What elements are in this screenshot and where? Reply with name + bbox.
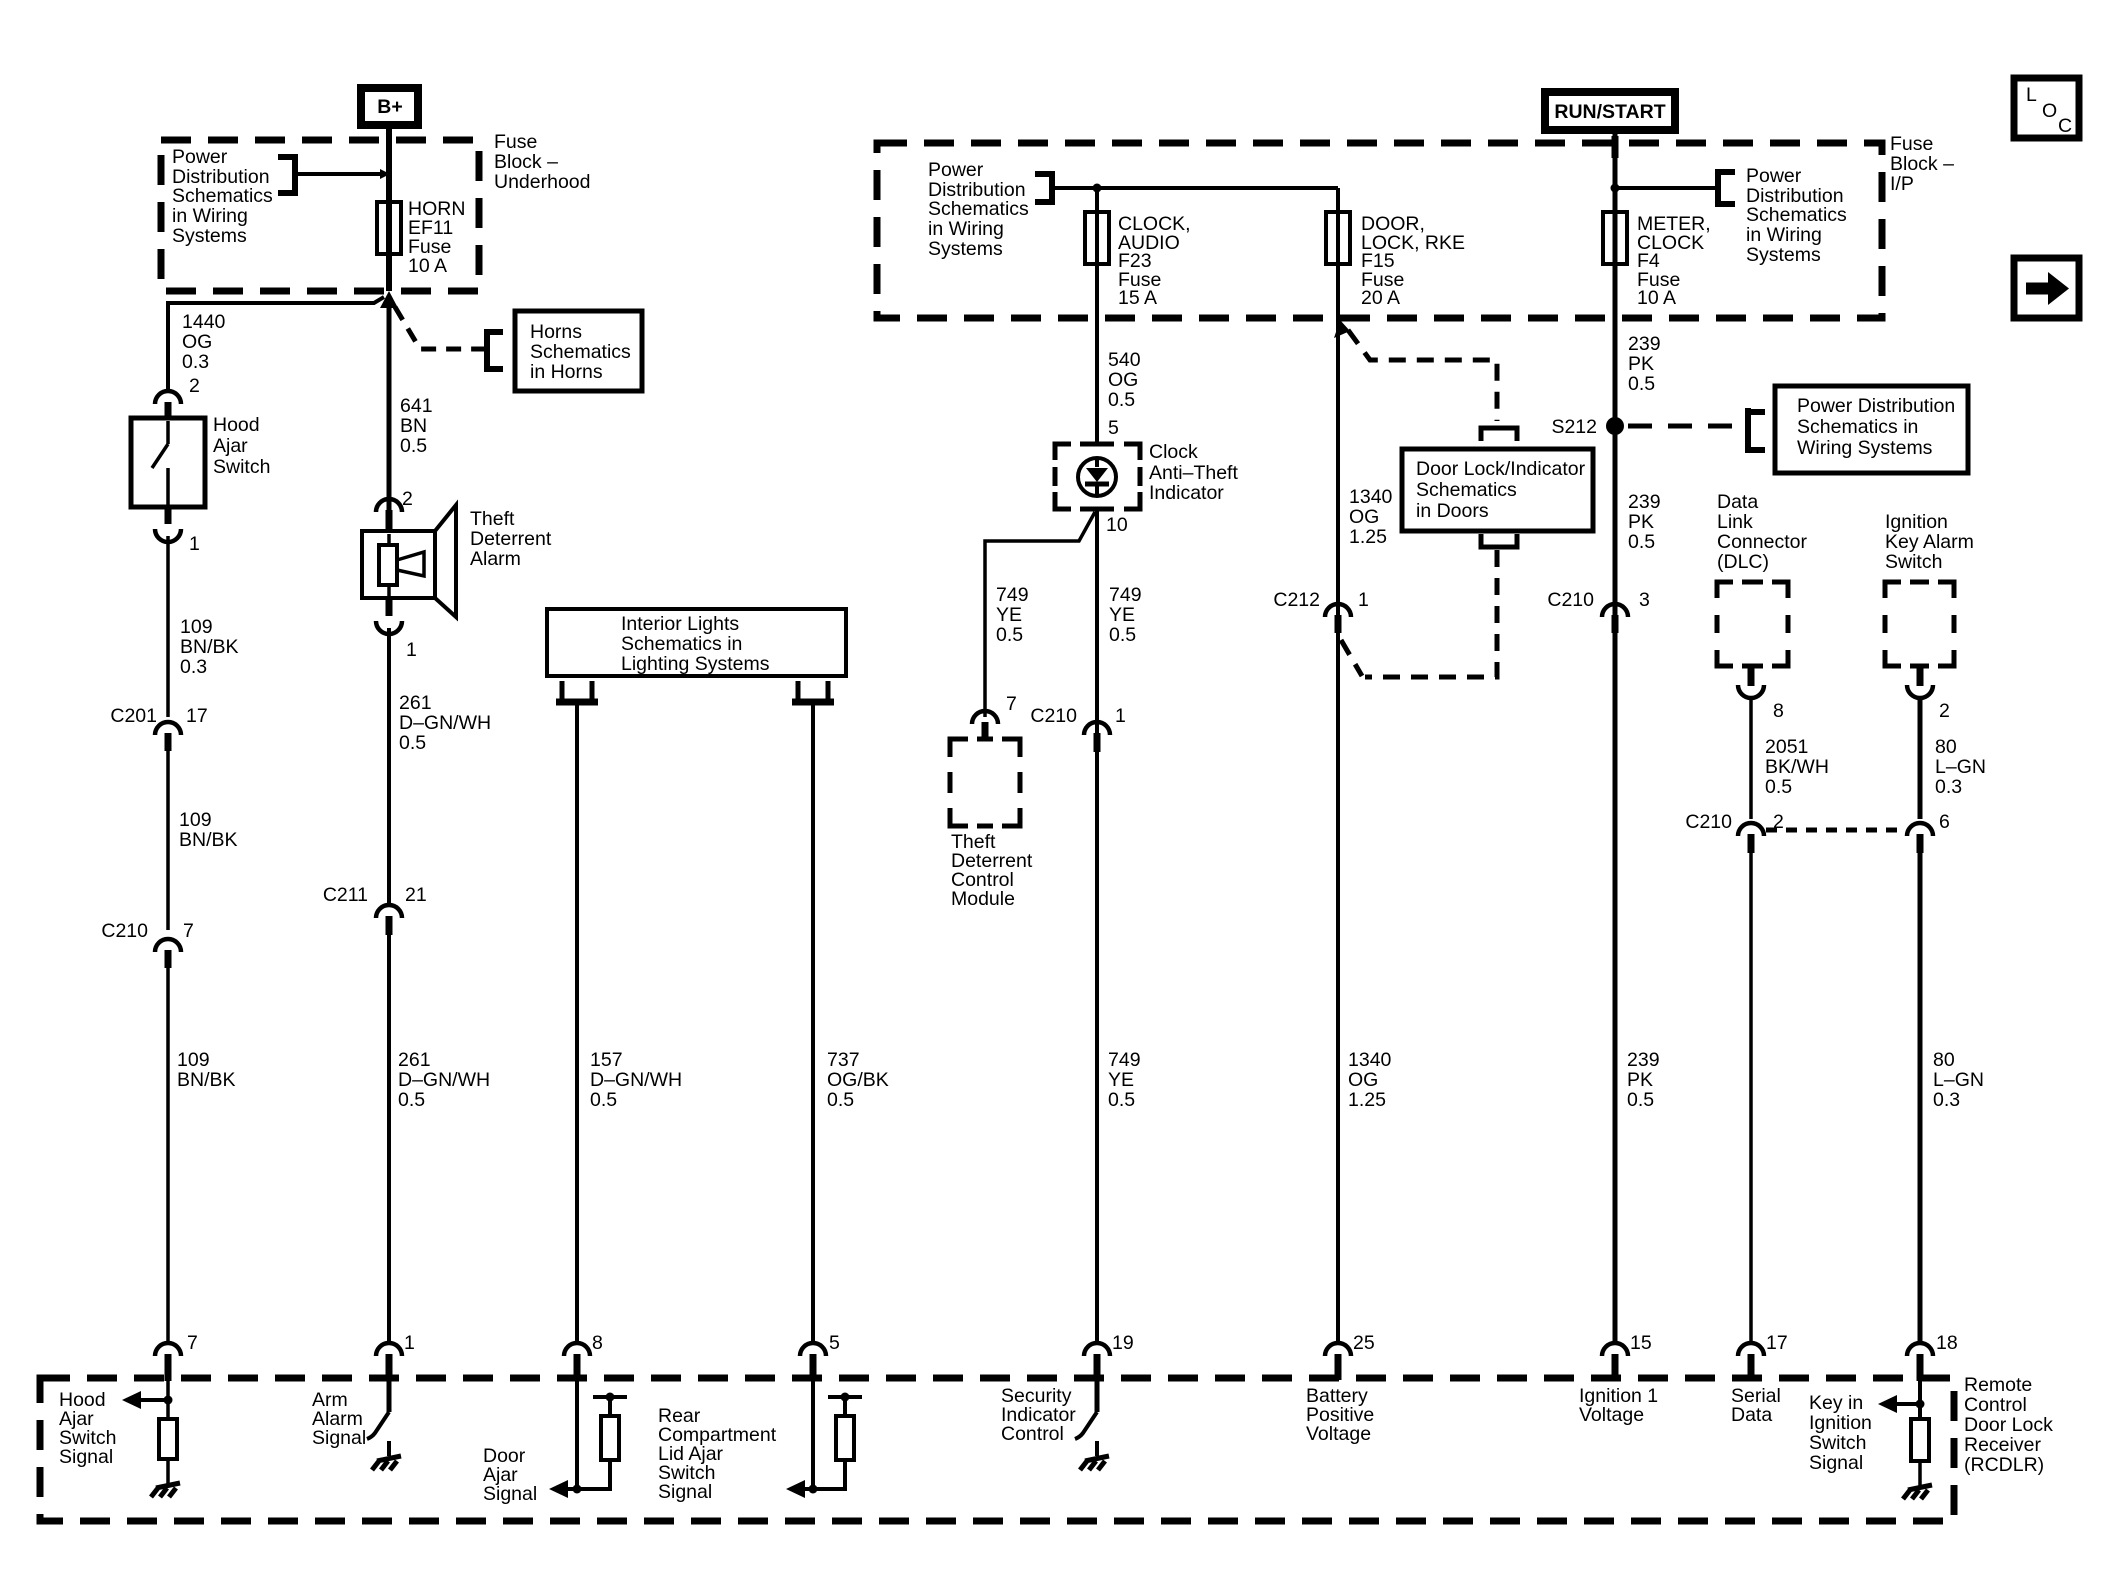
svg-text:Schematics in: Schematics in <box>621 633 742 655</box>
svg-text:YE: YE <box>1108 1069 1134 1091</box>
svg-text:OG: OG <box>1108 369 1138 391</box>
svg-text:0.5: 0.5 <box>996 624 1023 646</box>
ground security indicator <box>1080 1456 1109 1470</box>
svg-text:0.5: 0.5 <box>1109 624 1136 646</box>
svg-text:OG/BK: OG/BK <box>827 1069 889 1091</box>
svg-text:25: 25 <box>1353 1332 1375 1354</box>
svg-text:540: 540 <box>1108 349 1141 371</box>
svg-text:1: 1 <box>1115 705 1126 727</box>
wire C210 down to RCDLR pin 7 <box>166 968 170 1344</box>
svg-text:5: 5 <box>829 1332 840 1354</box>
svg-text:0.3: 0.3 <box>180 656 207 678</box>
svg-text:Data: Data <box>1717 491 1758 513</box>
svg-text:1340: 1340 <box>1348 1049 1392 1071</box>
connector pin 2 alarm <box>376 499 402 512</box>
svg-text:0.5: 0.5 <box>400 435 427 457</box>
svg-text:C212: C212 <box>1273 589 1320 611</box>
wire C210-2 down <box>1749 853 1753 1344</box>
wire clock/audio down <box>1095 188 1099 444</box>
arrow up at I/P block bottom <box>1334 320 1350 338</box>
key in ignition circuit <box>1918 1381 1922 1419</box>
arrow up at fuse block bottom <box>380 291 398 308</box>
wire branch to hood ajar switch <box>168 297 384 392</box>
branch to theft deterrent control module <box>985 512 1095 717</box>
svg-text:239: 239 <box>1628 491 1661 513</box>
svg-text:Voltage: Voltage <box>1579 1404 1644 1426</box>
svg-text:I/P: I/P <box>1890 173 1914 195</box>
dashed ref to horns schematics <box>395 307 486 349</box>
svg-text:(DLC): (DLC) <box>1717 551 1769 573</box>
svg-text:737: 737 <box>827 1049 860 1071</box>
svg-text:C201: C201 <box>110 705 157 727</box>
svg-text:261: 261 <box>399 692 432 714</box>
svg-text:1: 1 <box>1358 589 1369 611</box>
svg-text:C: C <box>2058 115 2072 137</box>
arrow hood ajar switch signal <box>138 1398 168 1402</box>
svg-text:BN: BN <box>400 415 427 437</box>
svg-text:Ignition: Ignition <box>1885 511 1948 533</box>
security indicator switch <box>1095 1381 1100 1412</box>
LOC box <box>2014 78 2079 138</box>
svg-text:OG: OG <box>182 331 212 353</box>
box Power Distribution Schematics in Wiring Systems <box>1775 386 1968 473</box>
fuse HORN EF11 <box>377 202 401 254</box>
svg-text:Power Distribution: Power Distribution <box>1797 395 1955 417</box>
svg-text:Fuse: Fuse <box>494 131 537 153</box>
svg-text:6: 6 <box>1939 811 1950 833</box>
svg-text:749: 749 <box>996 584 1029 606</box>
svg-text:0.3: 0.3 <box>182 351 209 373</box>
svg-text:8: 8 <box>1773 700 1784 722</box>
RCDLR dashed box <box>40 1378 1954 1521</box>
svg-text:0.5: 0.5 <box>1108 389 1135 411</box>
svg-text:749: 749 <box>1109 584 1142 606</box>
arrow box <box>2014 258 2079 318</box>
svg-text:L–GN: L–GN <box>1933 1069 1984 1091</box>
svg-text:Switch: Switch <box>213 456 270 478</box>
svg-text:Signal: Signal <box>312 1427 366 1449</box>
fuse METER CLOCK F4 <box>1603 212 1627 264</box>
svg-text:17: 17 <box>1766 1332 1788 1354</box>
door ajar signal circuit <box>575 1381 579 1489</box>
svg-text:BN/BK: BN/BK <box>180 636 239 658</box>
svg-text:19: 19 <box>1112 1332 1134 1354</box>
wire resistor to ground <box>166 1459 170 1484</box>
wire run/start to meter fuse and down <box>1613 130 1618 1344</box>
dashed ref S212 to power distribution <box>1628 424 1745 429</box>
hood ajar switch box <box>131 418 205 507</box>
connector bracket left under interior lights <box>562 681 592 699</box>
svg-text:0.5: 0.5 <box>1628 531 1655 553</box>
svg-text:0.5: 0.5 <box>1765 776 1792 798</box>
svg-text:0.5: 0.5 <box>399 732 426 754</box>
wire interior right down <box>811 705 815 1344</box>
svg-text:C210: C210 <box>101 920 148 942</box>
svg-text:BN/BK: BN/BK <box>177 1069 236 1091</box>
fuse DOOR LOCK RKE F15 <box>1326 212 1350 264</box>
bracket for power distribution ref (underhood) <box>278 154 295 196</box>
svg-text:1340: 1340 <box>1349 486 1393 508</box>
connector pin 1 alarm <box>386 598 393 616</box>
svg-text:OG: OG <box>1348 1069 1378 1091</box>
svg-text:RUN/START: RUN/START <box>1554 101 1665 123</box>
svg-text:in Doors: in Doors <box>1416 500 1489 522</box>
svg-text:239: 239 <box>1628 333 1661 355</box>
svg-text:Power: Power <box>1746 165 1802 187</box>
tick run/start wire at fuse block edge <box>1612 136 1619 158</box>
svg-text:Theft: Theft <box>470 508 515 530</box>
svg-text:Indicator: Indicator <box>1149 482 1224 504</box>
alarm small horn <box>397 552 424 576</box>
svg-text:B+: B+ <box>377 96 402 118</box>
svg-text:0.3: 0.3 <box>1933 1089 1960 1111</box>
resistor hood <box>159 1419 177 1459</box>
svg-text:Systems: Systems <box>172 225 247 247</box>
svg-text:(RCDLR): (RCDLR) <box>1964 1454 2044 1476</box>
connector bracket right under interior lights <box>798 681 828 699</box>
svg-text:3: 3 <box>1639 589 1650 611</box>
svg-text:2: 2 <box>402 488 413 510</box>
svg-text:2: 2 <box>1939 700 1950 722</box>
svg-text:10 A: 10 A <box>1637 287 1676 309</box>
bus wire from bracket to door fuse <box>1052 186 1338 190</box>
svg-text:20 A: 20 A <box>1361 287 1400 309</box>
alarm driver <box>379 545 397 585</box>
bracket power distribution I/P left <box>1035 171 1052 205</box>
wire B+ down through horn fuse <box>386 125 392 291</box>
svg-text:8: 8 <box>592 1332 603 1354</box>
svg-text:Schematics: Schematics <box>928 198 1029 220</box>
svg-text:0.5: 0.5 <box>590 1089 617 1111</box>
svg-text:in Wiring: in Wiring <box>1746 224 1822 246</box>
clock anti-theft indicator dashed box <box>1055 444 1140 509</box>
svg-text:Power: Power <box>172 146 228 168</box>
svg-text:Schematics: Schematics <box>530 341 631 363</box>
svg-text:BN/BK: BN/BK <box>179 829 238 851</box>
svg-text:21: 21 <box>405 884 427 906</box>
bracket below door lock box <box>1481 534 1517 547</box>
connector pin 2 ignition <box>1917 666 1924 686</box>
fuse block I/P (dashed box) <box>877 143 1882 318</box>
wire DLC down <box>1749 698 1753 819</box>
theft deterrent control module dashed box <box>950 739 1020 826</box>
svg-text:Signal: Signal <box>1809 1452 1863 1474</box>
wire C201 to C210 <box>166 751 170 930</box>
svg-text:Control: Control <box>1964 1394 2027 1416</box>
ground hood <box>151 1483 180 1497</box>
svg-text:BK/WH: BK/WH <box>1765 756 1829 778</box>
svg-text:1440: 1440 <box>182 311 226 333</box>
box Horns Schematics in Horns <box>515 311 642 391</box>
svg-text:Signal: Signal <box>658 1481 712 1503</box>
svg-text:10 A: 10 A <box>408 255 447 277</box>
LED indicator <box>1078 458 1116 496</box>
theft deterrent alarm body <box>362 531 435 598</box>
junction hood signal <box>164 1396 173 1405</box>
connector pin 2 hood <box>155 391 181 404</box>
svg-text:1: 1 <box>404 1332 415 1354</box>
svg-text:109: 109 <box>180 616 213 638</box>
wire alarm to C211 <box>387 628 391 903</box>
svg-text:0.3: 0.3 <box>1935 776 1962 798</box>
svg-text:in Wiring: in Wiring <box>928 218 1004 240</box>
svg-text:Door Lock/Indicator: Door Lock/Indicator <box>1416 458 1586 480</box>
svg-text:0.5: 0.5 <box>827 1089 854 1111</box>
svg-text:2051: 2051 <box>1765 736 1808 758</box>
svg-text:Key in: Key in <box>1809 1392 1863 1414</box>
hood ajar switch contacts <box>152 421 168 507</box>
wire C211 down <box>387 935 391 1344</box>
svg-text:Anti–Theft: Anti–Theft <box>1149 462 1238 484</box>
svg-text:Door Lock: Door Lock <box>1964 1414 2053 1436</box>
svg-text:Voltage: Voltage <box>1306 1423 1371 1445</box>
svg-text:D–GN/WH: D–GN/WH <box>590 1069 682 1091</box>
pull-up resistor door ajar <box>601 1416 619 1460</box>
svg-text:10: 10 <box>1106 514 1128 536</box>
svg-text:Lighting Systems: Lighting Systems <box>621 653 770 675</box>
svg-text:109: 109 <box>179 809 212 831</box>
svg-text:Data: Data <box>1731 1404 1772 1426</box>
svg-text:in Wiring: in Wiring <box>172 205 248 227</box>
svg-text:Deterrent: Deterrent <box>470 528 552 550</box>
fuse CLOCK AUDIO F23 <box>1085 212 1109 264</box>
theft deterrent alarm horn cone <box>435 505 456 617</box>
svg-text:Switch: Switch <box>1809 1432 1866 1454</box>
svg-text:0.5: 0.5 <box>1627 1089 1654 1111</box>
svg-text:80: 80 <box>1935 736 1957 758</box>
svg-text:Schematics in: Schematics in <box>1797 416 1918 438</box>
svg-text:Remote: Remote <box>1964 1374 2032 1396</box>
wire into rcdlr <box>166 1381 170 1419</box>
fuse block underhood (dashed box) <box>161 140 479 291</box>
DLC dashed box <box>1717 582 1788 666</box>
svg-text:Underhood: Underhood <box>494 171 591 193</box>
svg-text:Fuse: Fuse <box>1890 133 1933 155</box>
svg-text:YE: YE <box>1109 604 1135 626</box>
svg-text:Ignition: Ignition <box>1809 1412 1872 1434</box>
svg-text:0.5: 0.5 <box>1628 373 1655 395</box>
svg-text:O: O <box>2042 100 2057 122</box>
dashed ref lower <box>1365 550 1497 677</box>
svg-text:641: 641 <box>400 395 433 417</box>
svg-text:C210: C210 <box>1685 811 1732 833</box>
wire interior left down <box>575 705 579 1344</box>
bracket power distribution I/P right <box>1718 169 1735 207</box>
svg-text:Hood: Hood <box>213 414 260 436</box>
wire door lock down <box>1336 188 1340 1344</box>
ground arm alarm <box>372 1456 401 1470</box>
svg-text:157: 157 <box>590 1049 623 1071</box>
rear compartment signal circuit <box>811 1381 815 1489</box>
svg-text:L: L <box>2026 84 2037 106</box>
svg-text:D–GN/WH: D–GN/WH <box>399 712 491 734</box>
svg-text:L–GN: L–GN <box>1935 756 1986 778</box>
svg-text:Systems: Systems <box>1746 244 1821 266</box>
dotted line C210 2 to 6 <box>1766 828 1905 833</box>
box Door Lock/Indicator Schematics in Doors <box>1402 449 1593 531</box>
svg-text:261: 261 <box>398 1049 431 1071</box>
svg-text:Signal: Signal <box>483 1483 537 1505</box>
arm alarm switch <box>387 1381 392 1412</box>
svg-text:Alarm: Alarm <box>470 548 521 570</box>
svg-text:1.25: 1.25 <box>1348 1089 1386 1111</box>
box Interior Lights Schematics <box>547 609 846 676</box>
svg-text:Block –: Block – <box>494 151 558 173</box>
svg-text:749: 749 <box>1108 1049 1141 1071</box>
svg-text:Schematics: Schematics <box>1416 479 1517 501</box>
svg-text:Key Alarm: Key Alarm <box>1885 531 1974 553</box>
wire pin6 down <box>1918 853 1923 1344</box>
svg-text:PK: PK <box>1628 353 1654 375</box>
svg-text:Schematics: Schematics <box>172 185 273 207</box>
svg-text:80: 80 <box>1933 1049 1955 1071</box>
svg-text:2: 2 <box>189 375 200 397</box>
svg-text:Interior Lights: Interior Lights <box>621 613 739 635</box>
node B+ <box>361 88 418 125</box>
svg-text:Systems: Systems <box>928 238 1003 260</box>
svg-text:15: 15 <box>1630 1332 1652 1354</box>
junction meter fuse <box>1611 184 1620 193</box>
svg-text:1: 1 <box>406 639 417 661</box>
wire hood to C201 <box>166 536 170 717</box>
bracket horns ref <box>487 329 503 372</box>
svg-text:0.5: 0.5 <box>1108 1089 1135 1111</box>
svg-text:D–GN/WH: D–GN/WH <box>398 1069 490 1091</box>
svg-text:Horns: Horns <box>530 321 582 343</box>
wire pin10 down <box>1095 509 1099 1344</box>
ignition key alarm switch dashed box <box>1885 582 1954 666</box>
connector pin 1 hood <box>155 529 181 542</box>
wire ignition down <box>1918 698 1923 819</box>
svg-text:Power: Power <box>928 159 984 181</box>
connector pin 8 DLC <box>1748 666 1755 686</box>
svg-text:18: 18 <box>1936 1332 1958 1354</box>
svg-text:in Horns: in Horns <box>530 361 603 383</box>
node RUN/START <box>1545 92 1675 130</box>
svg-text:Ajar: Ajar <box>213 435 248 457</box>
dashed ref to door lock schematics upper <box>1348 330 1497 421</box>
svg-text:PK: PK <box>1628 511 1654 533</box>
svg-text:YE: YE <box>996 604 1022 626</box>
svg-text:Receiver: Receiver <box>1964 1434 2041 1456</box>
svg-text:5: 5 <box>1108 417 1119 439</box>
wire junction to right bracket <box>1615 186 1716 190</box>
resistor key in ignition <box>1911 1419 1929 1461</box>
svg-text:239: 239 <box>1627 1049 1660 1071</box>
svg-text:Module: Module <box>951 888 1015 910</box>
svg-text:Wiring Systems: Wiring Systems <box>1797 437 1933 459</box>
svg-text:0.5: 0.5 <box>398 1089 425 1111</box>
svg-text:7: 7 <box>187 1332 198 1354</box>
pull-up resistor rear compartment <box>836 1416 854 1460</box>
svg-text:1: 1 <box>189 533 200 555</box>
svg-text:C211: C211 <box>323 884 368 906</box>
svg-text:7: 7 <box>1006 693 1017 715</box>
svg-text:109: 109 <box>177 1049 210 1071</box>
wire bracket to horn fuse wire <box>295 172 381 176</box>
svg-text:Schematics: Schematics <box>1746 204 1847 226</box>
svg-text:1.25: 1.25 <box>1349 526 1387 548</box>
junction clock fuse <box>1093 184 1102 193</box>
bracket above door lock box <box>1481 428 1517 441</box>
svg-text:PK: PK <box>1627 1069 1653 1091</box>
svg-text:15 A: 15 A <box>1118 287 1157 309</box>
svg-text:Signal: Signal <box>59 1446 113 1468</box>
bracket power distribution right box <box>1748 408 1765 453</box>
svg-text:Connector: Connector <box>1717 531 1807 553</box>
svg-text:7: 7 <box>183 920 194 942</box>
ground key in ignition <box>1903 1485 1932 1499</box>
svg-text:17: 17 <box>186 705 208 727</box>
svg-text:Switch: Switch <box>1885 551 1942 573</box>
svg-text:Block –: Block – <box>1890 153 1954 175</box>
svg-text:Control: Control <box>1001 1423 1064 1445</box>
svg-text:C210: C210 <box>1547 589 1594 611</box>
svg-text:Clock: Clock <box>1149 441 1198 463</box>
svg-text:OG: OG <box>1349 506 1379 528</box>
svg-text:Link: Link <box>1717 511 1753 533</box>
svg-text:S212: S212 <box>1551 416 1597 438</box>
svg-text:C210: C210 <box>1030 705 1077 727</box>
